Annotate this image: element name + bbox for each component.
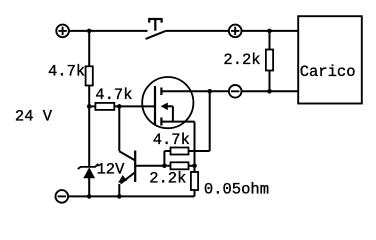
svg-text:4.7k: 4.7k	[153, 131, 190, 149]
svg-text:4.7k: 4.7k	[95, 86, 132, 104]
svg-text:2.2k: 2.2k	[149, 170, 186, 188]
svg-text:0.05ohm: 0.05ohm	[204, 181, 269, 199]
svg-text:Carico: Carico	[300, 63, 356, 81]
svg-text:2.2k: 2.2k	[223, 51, 260, 69]
svg-text:4.7k: 4.7k	[48, 63, 85, 81]
svg-text:24 V: 24 V	[15, 107, 53, 125]
svg-text:12V: 12V	[97, 161, 126, 179]
